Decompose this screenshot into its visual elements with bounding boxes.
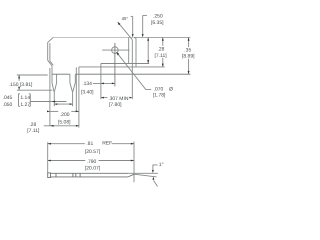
left top chamfer bbox=[48, 37, 54, 42]
pin 1 tip line and extension bbox=[53, 92, 55, 107]
body right outer edge bbox=[135, 38, 137, 67]
svg-text:[7.11]: [7.11] bbox=[155, 53, 168, 59]
arrowhead .307 right bbox=[129, 97, 132, 99]
svg-text:.81: .81 bbox=[86, 141, 93, 147]
arrowhead 45deg leader bbox=[117, 22, 120, 26]
left outer edge bbox=[47, 42, 49, 60]
svg-text:[8.89]: [8.89] bbox=[182, 54, 195, 60]
dim .28 right dimension line bbox=[162, 37, 164, 46]
step inner line x=76.3 bbox=[75, 67, 77, 111]
arrowhead .250 dim top bbox=[147, 38, 149, 41]
left lower bevel inner bbox=[50, 61, 53, 65]
arrowhead .35 bottom bbox=[188, 71, 190, 74]
bottom extension line far left bbox=[17, 74, 48, 76]
dim .28 left extension vertical bbox=[49, 68, 51, 126]
svg-text:1.14: 1.14 bbox=[20, 95, 30, 101]
hole circle bbox=[112, 47, 119, 54]
dim .045/.050 leader bbox=[30, 101, 66, 103]
pin 2 left edge bbox=[70, 74, 73, 92]
svg-text:REF: REF bbox=[102, 141, 112, 147]
45 deg chamfer + leader line bbox=[118, 22, 132, 39]
hole horizontal centerline bbox=[102, 49, 129, 51]
dim .790 dimension line bbox=[48, 160, 86, 162]
bottom view: bar bottom edge bbox=[51, 176, 129, 178]
bottom view: tip vertical extension bbox=[133, 142, 135, 183]
arrowhead .150 top bbox=[18, 75, 20, 78]
bottom view: taper bottom bbox=[128, 174, 134, 177]
1 deg bottom arrow stub bbox=[154, 181, 158, 187]
arrowhead 1deg up bbox=[152, 177, 154, 180]
arrowhead .28 right bbox=[76, 111, 79, 113]
pin 2 tip line and extension bbox=[72, 92, 74, 107]
arrowhead .790 right bbox=[131, 160, 134, 162]
dim .045/.050 bracket bbox=[18, 94, 20, 107]
dim .200 dimension line bbox=[54, 103, 72, 105]
svg-text:.150 [3.81]: .150 [3.81] bbox=[9, 82, 33, 88]
svg-text:Ø: Ø bbox=[169, 86, 173, 92]
jaw fold vertical bbox=[128, 37, 130, 63]
left lower vertical bbox=[51, 66, 53, 74]
bottom view: bar top edge bbox=[51, 172, 129, 174]
left lower bevel outer bbox=[48, 60, 52, 66]
svg-text:.250: .250 bbox=[153, 14, 163, 20]
bottom view: internal verticals bbox=[55, 173, 57, 177]
svg-text:.045: .045 bbox=[3, 95, 13, 101]
step line H2 bbox=[101, 63, 149, 65]
dim .250 flag vertical 2 bbox=[142, 15, 144, 35]
dim .150 dimension line bbox=[18, 75, 20, 81]
dim .81 REF dimension line bbox=[48, 143, 85, 145]
bottom line right segment bbox=[75, 73, 190, 75]
bottom view: left cap bbox=[48, 173, 51, 178]
svg-text:[20.57]: [20.57] bbox=[85, 149, 101, 155]
arrowhead .81 left bbox=[48, 143, 51, 145]
arrowhead .150 bottom bbox=[18, 87, 20, 90]
arrowhead .250 flag 1 bbox=[132, 34, 134, 37]
svg-text:.35: .35 bbox=[184, 47, 191, 53]
arrowhead .250 flag 2 bbox=[142, 34, 144, 37]
svg-text:[7.11]: [7.11] bbox=[27, 128, 40, 134]
pin 1 left edge bbox=[52, 74, 54, 92]
svg-text:45°: 45° bbox=[122, 16, 129, 21]
bottom view: 1 deg sloped line bbox=[134, 174, 157, 177]
dim .35 dimension line bbox=[188, 37, 190, 47]
bottom view: left extension vertical bbox=[47, 142, 49, 173]
svg-text:.050: .050 bbox=[3, 102, 13, 108]
dim .250 flag vertical 1 bbox=[132, 16, 134, 35]
arrowhead hole leader bbox=[116, 52, 119, 56]
svg-text:[3.40]: [3.40] bbox=[81, 90, 94, 96]
arrowhead .81 right bbox=[131, 143, 134, 145]
dim .28 left leader shelf bbox=[44, 125, 79, 127]
jaw inner vertical bbox=[131, 40, 133, 99]
arrowhead .200 left bbox=[54, 103, 57, 105]
arrowhead .045/.050 leader bbox=[52, 101, 55, 103]
arrowhead .28R bottom bbox=[162, 64, 164, 67]
svg-text:.200: .200 bbox=[60, 112, 70, 118]
arrowhead .28R top bbox=[162, 38, 164, 41]
svg-text:.28: .28 bbox=[29, 122, 36, 128]
arrowhead shelf right bbox=[76, 125, 79, 127]
svg-text:.134: .134 bbox=[82, 81, 92, 87]
body right top chamfer bbox=[134, 36, 136, 39]
svg-text:[5.08]: [5.08] bbox=[58, 119, 71, 125]
flange line H4 bbox=[79, 66, 165, 68]
hole leader line bbox=[117, 52, 152, 89]
arrowhead .28 left outside bbox=[47, 111, 50, 113]
1 deg label leader bbox=[153, 165, 158, 172]
svg-text:[20.07]: [20.07] bbox=[85, 165, 101, 171]
dim .28 left dimension line bbox=[50, 110, 58, 112]
bottom line left segment bbox=[52, 73, 70, 75]
notch vertical x=79 bbox=[78, 67, 80, 128]
dim .150 bottom extension line bbox=[17, 89, 53, 91]
svg-text:.790: .790 bbox=[87, 159, 97, 165]
top edge of body bbox=[53, 36, 134, 38]
svg-text:[7.80]: [7.80] bbox=[109, 102, 122, 108]
dim .307 dimension line bbox=[101, 97, 108, 99]
dim .250 dimension line bbox=[147, 37, 149, 63]
svg-text:.28: .28 bbox=[158, 46, 165, 52]
arrowhead .134 right bbox=[112, 83, 115, 85]
svg-text:1.27: 1.27 bbox=[20, 102, 30, 108]
arrowhead .250 dim bottom bbox=[147, 60, 149, 63]
svg-text:1°: 1° bbox=[159, 162, 164, 168]
dim .134 dimension line bbox=[93, 82, 115, 84]
svg-text:[1.78]: [1.78] bbox=[153, 92, 166, 98]
left inner edge bbox=[49, 43, 51, 61]
pin 2 right edge bbox=[73, 74, 76, 92]
arrowhead .35 top bbox=[188, 38, 190, 41]
svg-text:[6.35]: [6.35] bbox=[151, 20, 164, 26]
pin 1 right edge bbox=[54, 74, 56, 92]
hole vertical centerline bbox=[114, 43, 116, 87]
step vertical x=101 bbox=[100, 64, 102, 100]
arrowhead shelf left bbox=[50, 125, 54, 127]
arrowhead 1deg down bbox=[152, 170, 154, 173]
arrowhead .200 right bbox=[70, 103, 73, 105]
arrowhead .790 left bbox=[48, 160, 51, 162]
arrowhead .134 left bbox=[101, 83, 104, 85]
arrowhead .307 left bbox=[101, 97, 104, 99]
